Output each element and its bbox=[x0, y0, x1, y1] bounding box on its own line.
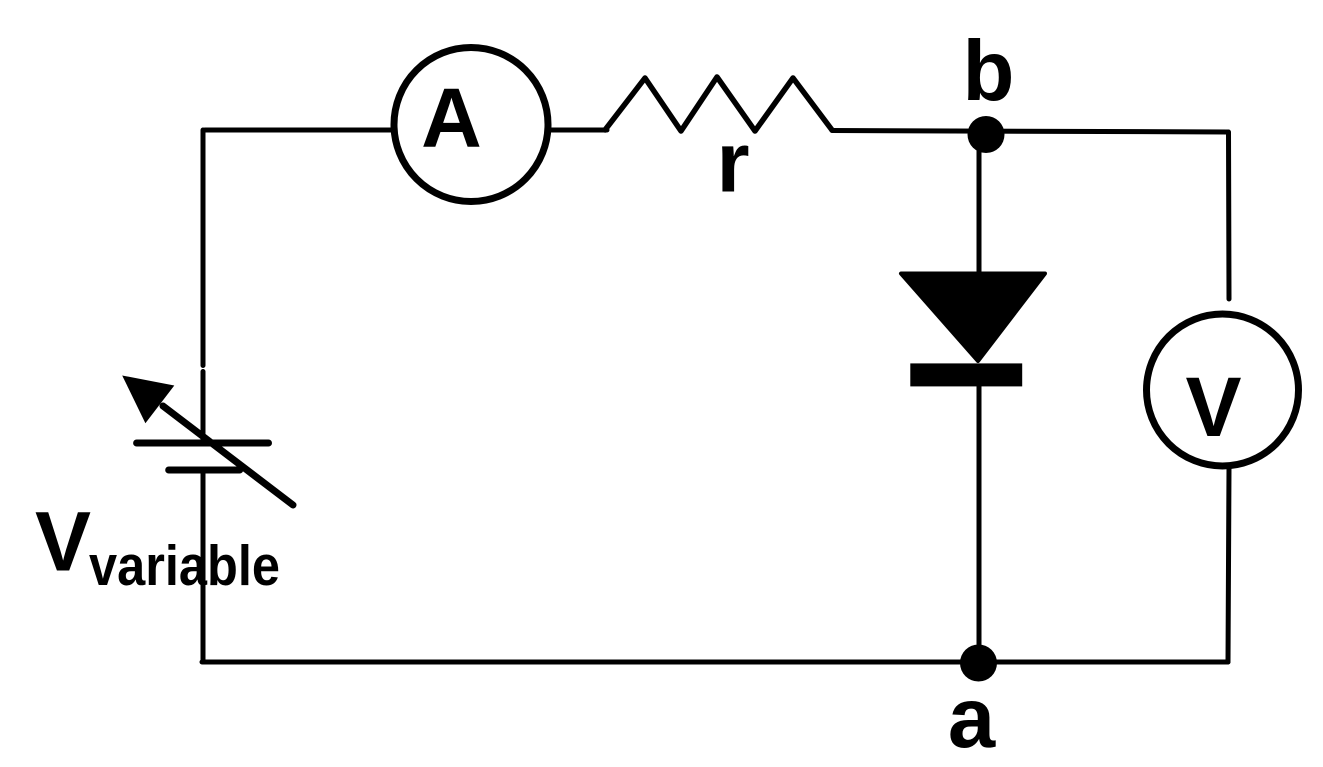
svg-text:V: V bbox=[35, 495, 91, 589]
svg-text:V: V bbox=[1185, 360, 1241, 454]
svg-text:variable: variable bbox=[89, 534, 280, 598]
svg-text:b: b bbox=[963, 24, 1015, 119]
svg-text:A: A bbox=[421, 71, 482, 165]
svg-text:r: r bbox=[716, 116, 749, 211]
svg-text:a: a bbox=[948, 671, 996, 766]
